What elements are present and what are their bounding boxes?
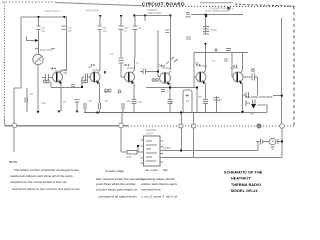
coupling cap C3 to Q1 base [42,77,53,79]
junction dot rail A right [63,16,66,19]
Q2 collector stub [98,70,100,73]
capacitor C5 plates [98,26,102,30]
resistor marks near Q4 out [161,90,165,92]
block pins right [160,141,163,162]
svg-text:OSC: OSC [211,28,217,32]
bus end arrow [241,111,244,114]
Q1 collector run [51,87,82,89]
coupling caps pins left of Q4 [152,79,155,82]
dot on bus at C9 [180,112,182,114]
feed from volume to rail [273,95,282,97]
svg-text:2N414: 2N414 [199,64,208,68]
earphone right lead [281,128,283,158]
dot at right rail [281,95,283,97]
junction dot rail E mid [144,15,147,18]
svg-text:numbered callouts and show all: numbered callouts and show all of the pa… [10,174,73,178]
pin circles left of Q2 [82,80,85,83]
dot on AGC line at Q4 emitter [169,87,171,89]
diode CR2 [251,104,256,109]
osc coil L3 [203,27,209,35]
bottom bus [84,112,240,114]
oscillator feedback line [194,52,248,54]
Q4 emitter resistor leg [169,83,171,99]
junction dot rail A at antenna [37,16,40,19]
svg-text:HEATHKIT’: HEATHKIT’ [231,177,252,181]
dot on bus Q2 leg [97,112,99,114]
svg-text:AMPLIFIER: AMPLIFIER [147,11,161,15]
resistor color marks top [35,13,228,87]
capacitor C7 plates [143,69,146,75]
Q1 emitter wire [60,83,62,111]
dot on collector run [81,86,83,88]
Q6 collector [241,53,243,73]
coil L2 marks [119,58,124,63]
svg-text:.02: .02 [29,92,33,96]
svg-text:sw. conn: sw. conn [145,168,158,172]
grommet right a [257,124,261,128]
antenna feed [38,17,40,26]
jack wire to block [121,151,127,153]
svg-text:emitter and chassis parts: emitter and chassis parts [141,182,178,186]
resistor R7 ticks [132,100,137,104]
svg-text:MODEL GR-24: MODEL GR-24 [231,189,258,193]
svg-text:T2: T2 [212,59,216,63]
svg-text:T3: T3 [219,98,223,102]
junction dot below osc coil [204,43,207,46]
grommet at left ground [12,123,17,128]
svg-text:T1: T1 [136,61,140,65]
dot earphone [281,141,283,143]
svg-text:.05: .05 [126,99,130,103]
Q6 collector to cap [243,76,252,78]
wire v77 bias leg [76,102,78,110]
svg-text:2N235: 2N235 [230,66,239,70]
wire v21 [20,17,22,88]
diode output dash [258,105,268,113]
svg-text:AMPLIFIER A: AMPLIFIER A [44,9,61,13]
bypass cap on bus b (Q2 emitter) [98,103,100,109]
wire v170 collector Q4 [170,16,172,71]
svg-text:VOLUME CONTROL: VOLUME CONTROL [245,95,274,99]
resistor R12 on osc line [226,49,231,51]
svg-text:NOTE: NOTE [9,160,17,164]
plug drop to line1 [257,142,259,151]
v82 up to Q2 coupling [81,77,83,88]
wire v257 down [257,77,259,96]
svg-text:SCHEMATIC OF THE: SCHEMATIC OF THE [224,171,263,175]
antenna lower lead [37,65,39,112]
svg-text:bias network holds the operati: bias network holds the operating [96,177,143,181]
Q3 collector wire [133,58,135,73]
wire v181 [181,113,183,125]
wire v122 to jack grommet [121,113,123,124]
bypass cap on bus c [122,103,124,113]
svg-text:500: 500 [250,112,255,116]
feed-through dot v100 [99,15,102,18]
Q4 base feed v158 [157,30,159,72]
wire v14 down to jack [13,88,15,124]
top rail segment D [191,14,243,16]
grommet center [119,123,124,128]
osc label dot [205,15,207,17]
resistor R11 ticks [203,100,208,104]
capacitor C2 plates [25,98,28,103]
wire v138 [137,147,139,152]
svg-text:2N410: 2N410 [127,66,136,70]
svg-text:resistor keeps gain nearly so: resistor keeps gain nearly so [96,188,138,192]
grommet right b [280,124,285,129]
svg-text:1K: 1K [63,100,67,104]
page top rule [2,2,294,6]
earphone ground marks [271,147,275,149]
Q3 base lead [121,76,126,78]
svg-text:det.: det. [163,168,169,172]
bracket marks right of Q1 [64,71,68,74]
cap C11 plates [253,100,256,105]
svg-text:THERMA RADIO: THERMA RADIO [231,183,261,187]
block inner marks [146,141,157,161]
Q3 emitter resistor leg [133,83,135,99]
transistor Q3 circle [125,72,135,82]
svg-text:30: 30 [42,29,46,33]
electrolytic capacitor C9 [183,90,192,113]
svg-text:mounted on the circuit board o: mounted on the circuit board of this set [10,180,67,184]
svg-text:R30: R30 [126,155,132,159]
Q6 base bar [237,72,239,82]
wire v100 with cap [99,17,101,26]
wire v193 [193,53,195,88]
svg-text:and wired below to the control: and wired below to the controls and jack… [12,187,80,191]
svg-text:2N410: 2N410 [92,68,101,72]
stub v145 [144,16,146,22]
wire v232 to Q6 base [231,53,233,78]
antenna coil circle [33,54,43,64]
svg-text:K: K [125,29,127,33]
ground arrow bias leg [76,111,79,114]
branch to antenna arrow [27,37,37,41]
Q4 emitter arrow [167,81,170,85]
ground arrow Q1 emitter [58,111,61,114]
ground bus bottom left [5,125,129,127]
svg-text:1K: 1K [170,100,174,104]
Q6 emitter leg [242,83,244,111]
svg-text:160: 160 [41,101,46,105]
dot at speaker line [180,150,182,152]
svg-text:1. osc 2. mixer 3. det 4. a: 1. osc 2. mixer 3. det 4. af [141,195,177,199]
Q2 emitter arrow [96,80,99,84]
circuit board dashed outline [5,3,295,127]
svg-text:in each stage: in each stage [105,169,124,173]
transistor Q1 circle [53,72,63,82]
Q5 emitter resistor leg [205,83,207,99]
Q6 emitter arrow [239,80,242,84]
pin circles left of Q1 [43,80,46,83]
capacitor C1 plates [62,26,66,30]
svg-text:.02: .02 [104,99,108,103]
Q1 base bar [56,72,58,82]
ground arrow antenna leg [37,111,40,114]
transistor Q5 circle [196,72,206,82]
Q5 emitter arrow [202,80,205,84]
top rail segment A [21,16,67,18]
svg-text:2N412: 2N412 [162,66,171,70]
Q5 base lead [194,76,197,78]
feed-through dot v121 [120,15,123,18]
output transformer T3 legs [216,96,218,113]
jack detail block [144,136,161,166]
svg-text:.05: .05 [103,29,107,33]
capacitor C10 plates [252,74,255,81]
earphone circle [269,138,276,145]
dark label dots above transistors [52,64,238,73]
svg-text:Q1: Q1 [50,66,54,70]
grommet square 2 [192,124,196,128]
AGC line to Q5 [146,87,197,89]
svg-text:constant here.: constant here. [141,188,162,192]
svg-text:constant at all signal levels.: constant at all signal levels. [98,195,138,199]
transistor Q4 circle [160,73,171,84]
Q4 base bar [164,73,166,83]
svg-text:2N412: 2N412 [55,69,64,73]
pin circles mid Q3-Q4 [105,89,108,92]
grommet square 1 [179,124,183,128]
Q6 bypass cap [243,92,249,98]
bypass cap on bus a [84,103,86,113]
wire v66 collector Q1 [66,17,68,70]
capacitor C2a plates [37,26,41,30]
wire jog to v14 [14,87,21,89]
resistor R9 ticks [168,100,173,104]
junction dot rail D [204,14,207,17]
Q5 collector up through coil [204,45,206,73]
pin circles right of Q6 [252,69,255,72]
svg-text:39: 39 [186,99,190,103]
speaker line 2 [160,157,282,159]
svg-text:47: 47 [139,26,143,30]
coupling cap C4 to Q2 base [82,76,91,78]
svg-text:CIRCUIT BOARD: CIRCUIT BOARD [142,1,185,7]
arrow into antenna feed [35,39,39,42]
svg-text:SPKR: SPKR [163,146,171,150]
speaker line 1 [160,150,258,152]
right rail v282 [281,18,283,124]
dot on AGC line right [196,87,198,89]
earphone right bar [276,141,278,143]
svg-text:L2: L2 [110,52,114,56]
svg-text:.05: .05 [88,99,92,103]
svg-text:JACK: JACK [146,132,153,136]
pot marks [246,100,250,106]
dot above block [137,145,139,147]
svg-text:50: 50 [199,95,203,99]
svg-text:CR1: CR1 [104,90,110,94]
top rail segment E [134,15,172,17]
svg-text:AMPLIFIER: AMPLIFIER [85,9,99,13]
junction dot rail E left [133,15,136,18]
transistor Q6 circle [233,72,243,82]
bus extension [240,112,267,114]
block pins left [141,140,144,163]
transistor Q2 circle [90,72,100,82]
svg-text:.05: .05 [68,29,72,33]
wire v27 with cap [26,88,28,112]
svg-text:point fixed while the emitter: point fixed while the emitter [96,182,137,186]
Q4 collector [169,71,171,74]
Q3 base bar [128,72,130,82]
fuse box [127,150,137,154]
svg-text:The letters on this schematic: The letters on this schematic are keyed … [14,168,79,172]
Q5 base bar [200,72,202,82]
Q2 emitter wire [99,83,101,103]
wire v135 with cap [134,16,136,27]
svg-text:OSC. MODULATOR: OSC. MODULATOR [205,9,229,13]
earphone plug left [256,141,260,143]
page number tab [227,7,230,10]
Q1 emitter arrow [59,80,62,84]
Q2 base bar [94,72,96,82]
svg-text:operating values shown: operating values shown [141,177,175,181]
capacitor C8 plates [119,26,124,30]
wire v121 osc [120,16,122,26]
Q3 emitter arrow [131,80,134,84]
junction dot rail E right [169,15,172,18]
capacitor C6 plates [133,26,138,30]
svg-text:100: 100 [138,100,143,104]
